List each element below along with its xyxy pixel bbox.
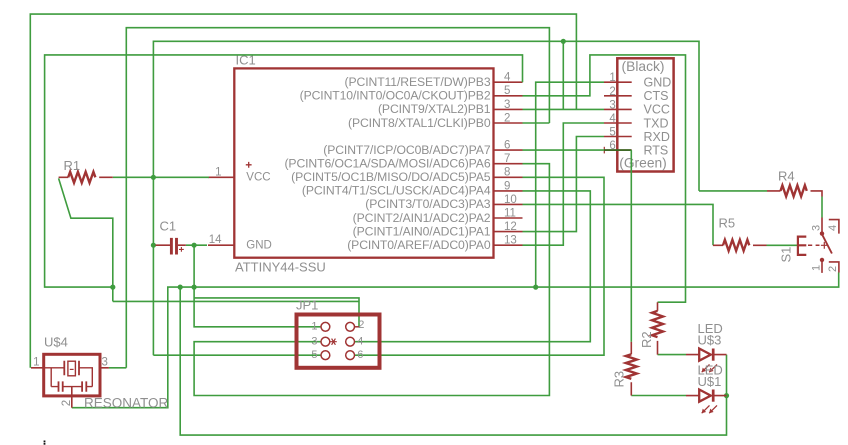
svg-text:(PCINT6/OC1A/SDA/MOSI/ADC6)PA6: (PCINT6/OC1A/SDA/MOSI/ADC6)PA6 <box>284 157 490 171</box>
svg-text:RESONATOR: RESONATOR <box>84 396 169 411</box>
svg-text:ATTINY44-SSU: ATTINY44-SSU <box>235 260 326 275</box>
svg-text:2: 2 <box>609 86 615 98</box>
svg-text:7: 7 <box>504 153 510 165</box>
svg-text:S1: S1 <box>778 247 793 263</box>
wire XTAL loop (U$4 pin3 up across to PB0) <box>126 28 549 368</box>
svg-text:3: 3 <box>811 225 823 231</box>
JP1 pin numbers <box>311 319 364 361</box>
svg-text:VCC: VCC <box>644 103 670 117</box>
svg-text:5: 5 <box>504 85 510 97</box>
wire VCC rail (x153 up, across top y41, down to R4) <box>153 41 699 355</box>
svg-text:R1: R1 <box>64 158 81 173</box>
svg-text:R4: R4 <box>778 169 795 184</box>
wire TXD: conn pin4 down to PA0 <box>523 123 605 245</box>
wire conn GND pin1 <box>536 82 604 287</box>
wire JP1 pin5 row <box>153 354 321 356</box>
svg-text:(PCINT1/AIN0/ADC1)PA1: (PCINT1/AIN0/ADC1)PA1 <box>353 224 491 238</box>
connector J1 FTDI header (Black/Green) with pins 1-6 <box>604 58 674 171</box>
wire PA6 down-around to JP1 pin3 <box>194 164 549 396</box>
wire RXD: conn pin5 down to PA1 <box>523 137 605 232</box>
wire PA4 down to JP1 pin4 <box>355 191 591 342</box>
wire RTS down to R3 <box>630 150 632 342</box>
LED U$1 <box>686 390 727 414</box>
svg-text:4: 4 <box>827 225 839 231</box>
wire VCC top loop (net from U$4 pin1 up and across to conn VCC) <box>30 14 576 368</box>
svg-text:3: 3 <box>504 99 510 111</box>
svg-text:RXD: RXD <box>644 130 670 144</box>
svg-text:(PCINT11/RESET/DW)PB3: (PCINT11/RESET/DW)PB3 <box>345 75 491 89</box>
svg-text:3: 3 <box>102 356 108 368</box>
svg-text:12: 12 <box>504 221 517 233</box>
wire R1 bend to GND dot <box>59 178 113 287</box>
capacitor C1 <box>156 238 186 255</box>
svg-text:R3: R3 <box>612 371 627 388</box>
svg-text:(PCINT8/XTAL1/CLKI)PB0: (PCINT8/XTAL1/CLKI)PB0 <box>348 116 491 130</box>
wire dot1 drop to Q rail <box>112 287 114 301</box>
wire C1 right down to GND rail / JP1 pin1 <box>194 245 321 327</box>
svg-text:(PCINT9/XTAL2)PB1: (PCINT9/XTAL2)PB1 <box>378 102 491 116</box>
wire VCC row R1 to IC pin1 <box>113 176 209 178</box>
wire GND rail to S1 pin2 <box>72 273 839 408</box>
svg-text:(PCINT10/INT0/OC0A/CKOUT)PB2: (PCINT10/INT0/OC0A/CKOUT)PB2 <box>300 89 491 103</box>
R3 label <box>612 371 627 388</box>
svg-text:1: 1 <box>33 356 39 368</box>
RESONATOR label <box>84 396 169 411</box>
svg-text:U$3: U$3 <box>698 333 722 348</box>
svg-text:GND: GND <box>246 240 272 252</box>
R1 label <box>64 158 81 173</box>
svg-text:6: 6 <box>357 349 363 361</box>
svg-text:3: 3 <box>609 99 615 111</box>
junction GND rail D <box>533 285 538 290</box>
R2 label <box>639 331 654 348</box>
JP1 label <box>296 298 318 313</box>
svg-text:8: 8 <box>504 167 510 179</box>
svg-text:5: 5 <box>609 127 615 139</box>
resonator U$4 <box>31 354 109 407</box>
svg-text:C1: C1 <box>160 219 177 234</box>
svg-text:1: 1 <box>215 166 221 178</box>
S1 pin 1 number <box>811 265 823 271</box>
resistor R5 <box>713 240 767 251</box>
S1 pin 2 number <box>827 266 839 272</box>
svg-text:1: 1 <box>311 321 317 333</box>
wire R5 to S1 <box>767 244 798 246</box>
U$4 pin 3 number <box>102 356 108 368</box>
wire C1 right to IC pin14 <box>186 244 207 246</box>
svg-text:(PCINT2/AIN1/ADC2)PA2: (PCINT2/AIN1/ADC2)PA2 <box>353 211 491 225</box>
sheet mark <box>44 441 46 445</box>
svg-text:GND: GND <box>644 76 672 90</box>
wire R2 bottom to LED U$3 anode <box>658 354 687 356</box>
svg-text:(Black): (Black) <box>622 59 665 74</box>
wire GND bottom rail to LED cathodes <box>180 287 726 435</box>
wire GND left loop (PB3 up, across y55, down to GND rail) <box>45 55 523 287</box>
svg-text:2: 2 <box>827 266 839 272</box>
IC U1 ATTINY44-SSU body with pins 1-14 and pin labels <box>208 68 523 257</box>
wire U$4 pin3 to x126 riser <box>109 367 126 369</box>
junction VCC at R1/IC pin1 <box>151 175 156 180</box>
IC1 reference label <box>236 53 256 68</box>
wire PB0 row <box>523 122 550 124</box>
svg-text:(Green): (Green) <box>619 156 667 171</box>
svg-text:(PCINT5/OC1B/MISO/DO/ADC5)PA5: (PCINT5/OC1B/MISO/DO/ADC5)PA5 <box>291 170 491 184</box>
svg-text:(PCINT3/T0/ADC3)PA3: (PCINT3/T0/ADC3)PA3 <box>365 197 491 211</box>
junction VCC at C1 left <box>151 243 156 248</box>
wire P rail to JP1 pin2 <box>194 298 359 327</box>
junction LED cathodes <box>724 393 729 398</box>
wire PB2 to R2 (across top right) <box>523 55 686 302</box>
junction VCC top rail <box>561 39 566 44</box>
svg-text:5: 5 <box>311 349 317 361</box>
S1 pin 3 number <box>811 225 823 231</box>
svg-text:2: 2 <box>504 112 510 124</box>
U$4 pin 1 number <box>33 356 39 368</box>
svg-text:4: 4 <box>504 72 511 84</box>
svg-text:4: 4 <box>609 113 616 125</box>
R4 label <box>778 169 795 184</box>
wire Q rail <box>113 300 359 302</box>
S1 pin 4 number <box>827 225 839 231</box>
U$4 pin 2 number <box>61 400 73 406</box>
header JP1 (ISP 2x3) <box>297 315 380 368</box>
LED U$3 <box>686 349 727 373</box>
svg-text:VCC: VCC <box>246 172 270 184</box>
wire PA3 to R5 <box>523 204 714 245</box>
junction GND at C1 right <box>192 243 197 248</box>
svg-text:R2: R2 <box>639 331 654 348</box>
LED U$1 labels <box>698 363 723 390</box>
junction GND rail A <box>110 285 115 290</box>
svg-text:1: 1 <box>609 72 615 84</box>
wire PA7 to RTS <box>523 149 605 151</box>
svg-text:R5: R5 <box>719 216 736 231</box>
svg-text:U$4: U$4 <box>44 335 68 350</box>
ATTINY44-SSU value label <box>235 260 326 275</box>
resistor R4 <box>767 185 822 196</box>
svg-text:4: 4 <box>357 335 363 347</box>
svg-text:10: 10 <box>504 194 517 206</box>
svg-text:6: 6 <box>504 140 510 152</box>
svg-text:(PCINT7/ICP/OC0B/ADC7)PA7: (PCINT7/ICP/OC0B/ADC7)PA7 <box>323 143 491 157</box>
resistor R2 <box>652 302 663 354</box>
svg-text:11: 11 <box>504 207 516 219</box>
wire PA5 down to JP1 pin6 <box>355 177 604 355</box>
pushbutton S1 <box>798 218 839 273</box>
wire R3 bottom to LED U$1 anode <box>631 395 686 397</box>
resistor R1 <box>59 172 113 183</box>
svg-text:13: 13 <box>504 235 517 247</box>
svg-text:U$1: U$1 <box>698 374 722 389</box>
svg-text:(PCINT4/T1/SCL/USCK/ADC4)PA4: (PCINT4/T1/SCL/USCK/ADC4)PA4 <box>302 184 491 198</box>
svg-text:JP1: JP1 <box>296 298 318 313</box>
svg-text:9: 9 <box>504 180 510 192</box>
U$4 label <box>44 335 68 350</box>
wire RTS overlap segment through conn pin6 <box>604 149 631 151</box>
wire R4 to S1 pin3 <box>821 197 823 218</box>
svg-text:TXD: TXD <box>644 116 669 130</box>
svg-text:2: 2 <box>358 319 364 331</box>
S1 label <box>778 247 793 263</box>
wire R4 row from x699 <box>699 190 767 192</box>
svg-text:2: 2 <box>61 400 73 406</box>
svg-text:1: 1 <box>811 265 823 271</box>
R5 label <box>719 216 736 231</box>
svg-text:3: 3 <box>311 335 317 347</box>
resistor R3 <box>626 342 637 396</box>
wire PB1/VCC row <box>523 108 605 110</box>
svg-text:14: 14 <box>209 234 222 246</box>
wire junction drop to VCC row <box>562 41 564 109</box>
LED U$3 labels <box>698 321 723 348</box>
junction GND rail C <box>192 285 197 290</box>
svg-text:(PCINT0/AREF/ADC0)PA0: (PCINT0/AREF/ADC0)PA0 <box>347 238 491 252</box>
svg-text:CTS: CTS <box>644 89 669 103</box>
C1 label <box>160 219 177 234</box>
junction GND rail B <box>178 285 183 290</box>
